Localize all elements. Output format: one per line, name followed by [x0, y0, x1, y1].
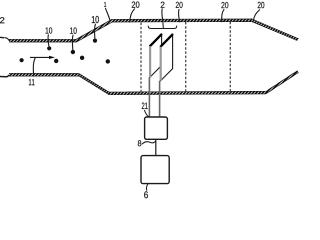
leader 8: [142, 141, 156, 144]
leader 2 top: [162, 8, 163, 22]
leader 21: [144, 110, 148, 117]
section dashed line (middle): [185, 22, 187, 93]
brace center tick: [162, 23, 165, 29]
label 6: [144, 191, 148, 198]
leader 10 first: [47, 34, 50, 46]
label 20 first: [132, 1, 140, 7]
label 20 fourth: [258, 2, 265, 8]
leader 11: [33, 58, 35, 77]
section dashed line (right): [229, 22, 231, 93]
inlet bottom break stub: [0, 75, 9, 77]
inlet top break stub: [0, 37, 9, 40]
plate lead left: [148, 77, 150, 117]
leader 6: [146, 184, 147, 191]
duct top wall (hatched): [9, 19, 299, 42]
label 11: [29, 79, 35, 85]
measuring dot D: [71, 50, 75, 54]
duct bottom wall (hatched): [9, 71, 299, 95]
section dashed line (left): [140, 23, 142, 94]
brace over plates: [148, 26, 177, 29]
label 10 third: [92, 16, 99, 23]
box 6 (evaluation unit): [141, 156, 169, 184]
plate left (electrode): [150, 34, 162, 77]
leader 20 third: [222, 9, 225, 22]
plate right (electrode): [160, 34, 173, 81]
measuring dot A: [20, 58, 24, 62]
label 2 top: [161, 2, 165, 8]
leader 20 second: [179, 9, 180, 22]
leader 10 third: [94, 24, 97, 39]
flow arrow: [30, 56, 55, 59]
leader 1: [105, 8, 110, 20]
label 20 third: [221, 2, 228, 8]
label 10 second: [70, 27, 77, 34]
measuring dot G: [106, 59, 110, 63]
plate lead right: [159, 81, 161, 117]
measuring dot F: [93, 39, 97, 43]
label 21: [142, 103, 148, 109]
leader 10 second: [71, 35, 74, 50]
label 2 far-left: [0, 17, 4, 23]
box 21 (control unit): [145, 117, 168, 139]
leader 20 fourth: [253, 10, 260, 22]
label 20 second: [176, 2, 183, 8]
label 1: [104, 2, 106, 7]
connector box21 to box6: [155, 139, 157, 155]
label 8: [138, 140, 141, 146]
measuring dot E: [80, 56, 84, 60]
leader 20 first: [130, 9, 135, 23]
label 10 first: [46, 27, 53, 33]
measuring dot C: [54, 59, 58, 63]
measuring dot B: [47, 46, 51, 50]
